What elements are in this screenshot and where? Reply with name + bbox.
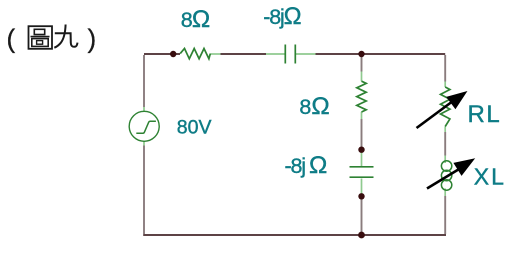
svg-text:-8jΩ: -8jΩ — [285, 152, 328, 179]
svg-text:XL: XL — [474, 164, 506, 190]
svg-text:(: ( — [7, 24, 16, 54]
svg-text:80V: 80V — [177, 116, 212, 138]
svg-text:8Ω: 8Ω — [299, 93, 329, 120]
svg-text:): ) — [88, 24, 97, 54]
svg-text:RL: RL — [468, 101, 502, 128]
svg-text:8Ω: 8Ω — [181, 6, 210, 33]
svg-text:-8jΩ: -8jΩ — [263, 3, 301, 30]
